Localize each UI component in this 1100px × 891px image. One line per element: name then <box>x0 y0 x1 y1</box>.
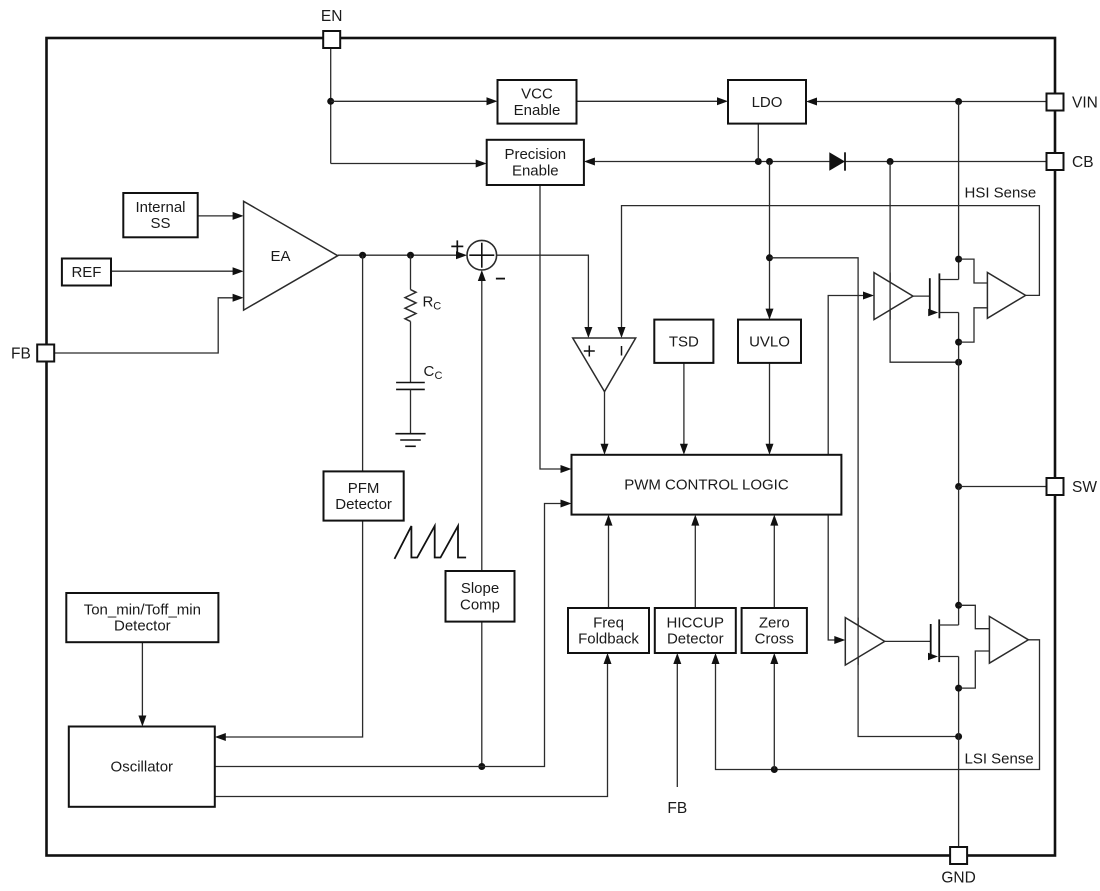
svg-text:GND: GND <box>941 870 975 887</box>
wire EN vertical from EN pin down to Precision Enable row <box>330 48 332 164</box>
low-side gate driver U3 <box>845 618 884 666</box>
node VCC rail top junction <box>766 158 773 165</box>
node CB bootstrap branch junction <box>887 158 894 165</box>
svg-text:Slope: Slope <box>461 580 499 597</box>
block HICCUP Detector <box>655 608 736 653</box>
wire PFM Detector output to Oscillator <box>226 521 363 737</box>
capacitor Cc <box>396 382 425 384</box>
wire low-side source rail down to GND pin <box>958 688 960 847</box>
svg-text:HSI Sense: HSI Sense <box>965 185 1037 202</box>
svg-text:R: R <box>423 294 434 311</box>
wire PWM logic output to high-side driver <box>828 296 863 455</box>
svg-text:EN: EN <box>321 8 343 25</box>
wire compensation node down to resistor Rc <box>410 255 412 289</box>
svg-text:CB: CB <box>1072 154 1094 171</box>
node LSI line / Zero Cross junction <box>771 766 778 773</box>
svg-text:PFM: PFM <box>348 480 380 497</box>
block VCC Enable <box>498 80 577 124</box>
node VIN rail junction <box>955 98 962 105</box>
block Ton_min/Toff_min Detector <box>66 593 218 642</box>
wire EA output down to PFM Detector <box>362 255 364 471</box>
svg-text:Enable: Enable <box>512 162 559 179</box>
wire LSI sense output line <box>716 640 1040 770</box>
block Zero Cross <box>742 608 807 653</box>
wire HSI sense upper input <box>959 259 988 283</box>
block TSD <box>654 320 713 363</box>
svg-text:C: C <box>433 301 441 313</box>
block Freq Foldback <box>568 608 649 653</box>
svg-text:Enable: Enable <box>514 102 561 119</box>
svg-text:Detector: Detector <box>114 618 171 635</box>
op-amp EA error amplifier <box>244 201 338 310</box>
svg-text:SS: SS <box>150 215 170 232</box>
node LDO output junction <box>755 158 762 165</box>
pin SW <box>1047 478 1064 495</box>
wire TSD output to PWM control logic <box>683 363 685 450</box>
wire FB input to HICCUP Detector <box>676 664 678 788</box>
svg-text:Comp: Comp <box>460 596 500 613</box>
wire VCC rail down to UVLO <box>769 162 771 315</box>
svg-text:FB: FB <box>11 346 31 363</box>
svg-text:HICCUP: HICCUP <box>667 614 725 631</box>
summing junction (adder) <box>467 240 497 270</box>
pin VIN <box>1047 94 1064 111</box>
wire Ton_min/Toff_min Detector output to Oscillator <box>141 642 143 716</box>
node VCC driver-supply branch junction <box>766 254 773 261</box>
wire slope comp up to summing junction minus input <box>481 281 483 571</box>
svg-text:TSD: TSD <box>669 333 699 350</box>
wire Rc to capacitor Cc <box>410 321 412 382</box>
wire low-side gate lead <box>885 640 931 642</box>
svg-text:VCC: VCC <box>521 86 553 103</box>
wire EN to VCC Enable input <box>331 100 487 102</box>
block Oscillator <box>69 727 215 807</box>
wire PWM comparator output to PWM control logic <box>604 392 606 450</box>
block Precision Enable <box>487 140 584 185</box>
wire summing junction output to PWM comparator plus input <box>497 255 589 332</box>
block UVLO <box>738 320 801 363</box>
sawtooth ramp waveform <box>395 526 467 559</box>
wire diode anode line to Precision Enable right input <box>595 161 830 163</box>
node high-side drain junction <box>955 256 962 263</box>
svg-text:Internal: Internal <box>135 199 185 216</box>
block LDO <box>728 80 806 124</box>
block Internal SS <box>123 193 197 237</box>
wire PWM logic output to low-side driver <box>828 515 834 640</box>
svg-text:LSI Sense: LSI Sense <box>965 751 1034 768</box>
svg-text:Oscillator: Oscillator <box>111 759 174 776</box>
wire VCC rail branch to low-side driver supply <box>770 258 959 737</box>
svg-text:Foldback: Foldback <box>578 631 639 648</box>
wire EA output to summing junction <box>338 254 457 256</box>
node EA output junction to compensation network <box>407 252 414 259</box>
node EA output junction to PFM detector <box>359 252 366 259</box>
pin FB <box>37 345 54 362</box>
low-side current sense amp (LSI Sense) <box>989 616 1028 663</box>
wire Zero Cross output to PWM control logic <box>773 525 775 608</box>
wire HICCUP Detector output to PWM control logic <box>694 525 696 608</box>
wire HSI sense lower input <box>959 308 988 342</box>
ground symbol (compensation) <box>395 433 425 435</box>
wire Slope Comp output down to oscillator ramp line <box>481 622 483 767</box>
wire SW rail mid section <box>958 313 960 487</box>
wire CB supply through high-side driver (over symbol) <box>889 273 891 320</box>
wire VCC supply through low-side driver (over symbol) <box>857 618 859 666</box>
wire FB pin to EA input <box>54 298 233 353</box>
svg-text:C: C <box>435 370 443 382</box>
wire VIN rail down to high-side FET drain <box>958 102 960 260</box>
diode D1 (LDO to CB) <box>829 152 845 171</box>
wire EN to Precision Enable left input <box>331 163 476 165</box>
wire high-side gate lead <box>913 295 930 297</box>
svg-text:LDO: LDO <box>752 94 783 111</box>
wire SW rail to SW pin <box>959 486 1047 488</box>
pin GND <box>950 847 967 864</box>
svg-text:EA: EA <box>270 248 290 265</box>
wire UVLO output to PWM control logic <box>769 363 771 450</box>
wire Oscillator output to Freq Foldback <box>215 664 608 797</box>
wire Freq Foldback output to PWM control logic <box>608 525 610 608</box>
svg-text:FB: FB <box>667 800 687 817</box>
svg-text:Cross: Cross <box>755 631 794 648</box>
svg-text:UVLO: UVLO <box>749 333 790 350</box>
svg-text:Precision: Precision <box>504 146 566 163</box>
svg-text:REF: REF <box>71 264 101 281</box>
node bootstrap return junction on SW rail <box>955 359 962 366</box>
svg-text:Zero: Zero <box>759 614 790 631</box>
wire VCC Enable output to LDO <box>577 100 718 102</box>
svg-text:Freq: Freq <box>593 614 624 631</box>
wire REF to EA input <box>111 270 233 272</box>
wire LDO bottom stub <box>757 124 759 162</box>
svg-text:PWM CONTROL LOGIC: PWM CONTROL LOGIC <box>624 477 789 494</box>
node EN branch junction <box>327 98 334 105</box>
node low-side driver supply return junction <box>955 733 962 740</box>
node low-side source junction <box>955 685 962 692</box>
pin EN <box>323 31 340 48</box>
wire Precision Enable output to PWM control logic <box>540 185 561 469</box>
block PFM Detector <box>324 471 404 520</box>
transistor Q1 high-side NMOS <box>929 278 931 312</box>
transistor Q2 low-side NMOS <box>930 624 932 658</box>
resistor Rc <box>405 290 416 322</box>
wire CB line from CB pin to diode cathode <box>845 161 1047 163</box>
svg-text:VIN: VIN <box>1072 94 1098 111</box>
PWM comparator U4 <box>573 338 636 392</box>
wire HSI sense feedback line to PWM comparator <box>622 206 1040 333</box>
wire LSI sense lower input <box>959 651 990 688</box>
svg-text:Detector: Detector <box>667 631 724 648</box>
high-side gate driver U2 <box>874 273 913 320</box>
node high-side source junction <box>955 339 962 346</box>
wire CB bootstrap down to high-side driver supply (drawn over driver) <box>890 162 959 363</box>
node SW junction <box>955 483 962 490</box>
svg-text:Ton_min/Toff_min: Ton_min/Toff_min <box>84 601 201 618</box>
high-side current sense amp (HSI Sense) <box>987 273 1025 319</box>
node low-side drain junction <box>955 602 962 609</box>
wire Cc to ground <box>410 389 412 433</box>
wire Internal SS to EA input <box>198 215 233 217</box>
svg-text:SW: SW <box>1072 479 1097 496</box>
wire SW rail down to low-side FET drain <box>958 487 960 606</box>
pin CB <box>1047 153 1064 170</box>
block PWM CONTROL LOGIC <box>572 455 842 515</box>
svg-text:Detector: Detector <box>335 496 392 513</box>
wire LSI sense upper input <box>959 605 990 628</box>
wire VIN line to LDO right input <box>817 101 1047 103</box>
node slope comp / oscillator line junction <box>478 763 485 770</box>
wire Oscillator ramp output to PWM control logic left input <box>215 504 561 767</box>
wire LSI junction up to Zero Cross <box>773 664 775 770</box>
block Slope Comp <box>446 571 515 622</box>
svg-text:C: C <box>424 363 435 380</box>
block REF <box>62 259 111 286</box>
